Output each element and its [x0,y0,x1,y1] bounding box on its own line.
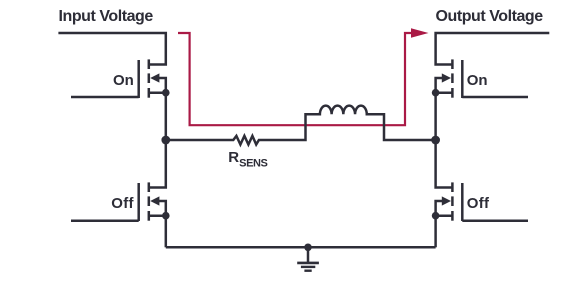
Q2 body arrow [442,73,451,82]
wire: input voltage rail to Q1 drain [58,33,165,65]
Q1 source junction dot [162,89,170,97]
ground symbol [297,247,319,270]
node: right switch node junction dot [431,136,440,145]
Q4 source junction dot [432,212,440,220]
wire: Q1 gate lead [71,96,139,99]
svg-text:Input Voltage: Input Voltage [59,8,154,25]
svg-text:On: On [467,72,488,89]
transistor Q1 (top-left NMOS, On) [139,59,166,98]
red current arrowhead at output [411,28,429,38]
wire: bottom ground rail [166,246,436,249]
wire: left switch-node vertical (Q1 source to Q3 drain) [149,93,166,188]
Q3 body arrow [150,196,159,205]
wire: switch node branch with sense resistor and inductor [166,106,436,145]
wire: red current path from input through sense resistor and inductor to output [178,33,412,125]
wire: output voltage rail from Q2 drain [436,33,550,65]
wire: Q4 gate lead [462,219,528,222]
svg-text:Off: Off [467,195,490,212]
transistor Q3 (bottom-left NMOS, Off) [139,182,166,221]
node: ground tap junction dot [304,244,312,252]
Q1 body arrow [150,73,159,82]
Q2 source junction dot [432,89,440,97]
wire: Q4 source to ground rail [434,216,437,248]
transistor Q2 (top-right NMOS, On) [436,59,463,98]
transistor Q4 (bottom-right NMOS, Off) [436,182,463,221]
svg-text:Off: Off [111,195,134,212]
node: left switch node junction dot [161,136,170,145]
wire: Q2 gate lead [462,96,528,99]
Q3 source junction dot [162,212,170,220]
wire: Q3 gate lead [71,219,139,222]
svg-text:Output Voltage: Output Voltage [436,8,544,25]
wire: Q3 source to ground rail [165,216,168,248]
svg-text:On: On [113,72,134,89]
wire: right switch-node vertical (Q2 source to Q4 drain) [436,93,453,188]
Q4 body arrow [442,196,451,205]
